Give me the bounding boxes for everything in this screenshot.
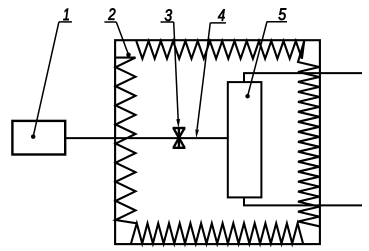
wire: feed line from generator to antenna and EUT — [66, 137, 228, 139]
label 4 — [218, 9, 225, 20]
leader line 1 — [33, 22, 59, 137]
leader line 2 — [116, 22, 128, 55]
absorber zigzag, bottom wall — [131, 223, 303, 243]
label 1 — [63, 9, 68, 20]
leader line 5 — [248, 22, 267, 97]
chamber 2 (shielded anechoic room outline) — [115, 40, 320, 244]
leader line 4 (arrow to cable) — [197, 23, 210, 129]
wire: bottom cable from EUT through wall to the right — [244, 198, 362, 206]
antenna 3 (biconical dipole symbol) — [173, 128, 186, 148]
wire: top cable from EUT through wall to the right — [244, 73, 362, 81]
leader line 3 (arrow to antenna) — [174, 22, 179, 121]
absorber zigzag, left wall — [116, 58, 137, 224]
absorber zigzag, top wall — [136, 41, 304, 59]
label 3 — [165, 9, 172, 21]
EUT 5 (equipment under test) — [228, 82, 262, 197]
absorber zigzag, right wall — [298, 41, 319, 226]
label 2 — [108, 8, 115, 19]
box 1 (generator) — [12, 121, 65, 155]
label 5 — [279, 8, 287, 20]
